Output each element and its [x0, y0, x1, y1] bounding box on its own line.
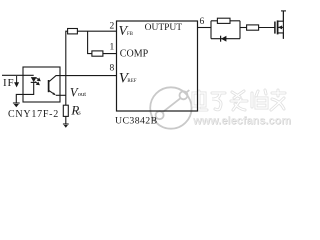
svg-text:s: s: [78, 111, 81, 117]
ground GND1: [13, 103, 20, 107]
MOSFET Q2: [275, 11, 286, 39]
wire emitter: [49, 90, 55, 94]
wire snubber right leg: [239, 21, 241, 39]
phototransistor Q1: [48, 80, 50, 92]
ground GND2: [63, 124, 69, 128]
wire IF input: [2, 74, 34, 76]
svg-text:COMP: COMP: [120, 49, 149, 60]
resistor R4 (gate series): [247, 25, 259, 30]
svg-text:IF: IF: [3, 77, 14, 89]
svg-text:6: 6: [200, 17, 205, 27]
watermark logo circle: [150, 87, 191, 128]
watermark chinese text 电子发烧友: [193, 90, 285, 110]
resistor R_s: [63, 105, 68, 116]
svg-text:CNY17F-2: CNY17F-2: [8, 109, 59, 120]
wire snubber left leg: [210, 21, 212, 39]
wire feedback vertical: [66, 31, 117, 105]
optocoupler U2 CNY17F-2 box: [23, 67, 60, 102]
wire R_s lead: [65, 116, 67, 124]
svg-text:www.elecfans.com: www.elecfans.com: [192, 115, 291, 127]
wire COMP branch: [88, 31, 117, 53]
svg-text:UC3842B: UC3842B: [115, 115, 158, 126]
LED light arrows: [35, 78, 40, 85]
IC U1 UC3842B box: [117, 21, 198, 111]
svg-text:OUTPUT: OUTPUT: [145, 23, 183, 33]
resistor R1 (VFB series): [68, 29, 78, 34]
svg-text:8: 8: [110, 64, 115, 74]
wire collector to pin 8: [49, 76, 117, 82]
svg-text:2: 2: [110, 22, 115, 32]
wire snubber bottom branch: [211, 38, 240, 40]
diode D2 (snubber): [221, 36, 227, 42]
svg-text:1: 1: [110, 42, 115, 52]
wire pin 6 output: [198, 27, 212, 29]
svg-text:FB: FB: [127, 32, 134, 37]
resistor R2 (COMP series): [92, 51, 103, 56]
resistor R3 (snubber top): [217, 18, 230, 23]
wire to gate resistor: [240, 27, 247, 29]
svg-text:out: out: [78, 91, 86, 98]
wire snubber top branch: [211, 20, 240, 22]
LED D1: [31, 77, 37, 82]
svg-text:REF: REF: [127, 79, 136, 84]
wire LED cathode to ground: [16, 82, 33, 103]
